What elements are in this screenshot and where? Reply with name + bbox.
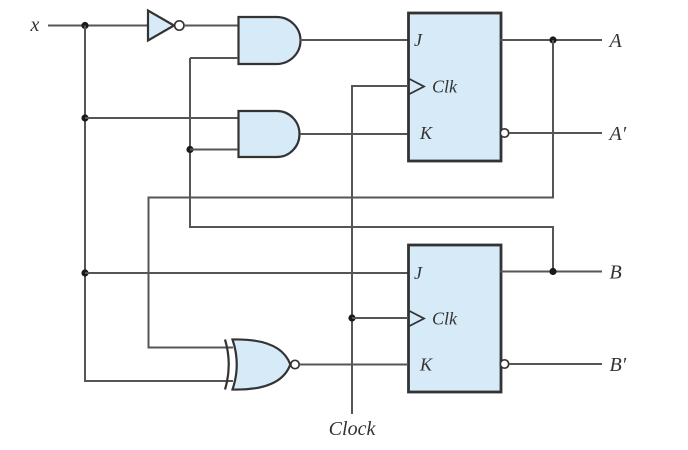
wire A' output	[509, 132, 602, 134]
wire B feedback to AND2 bottom input	[190, 149, 238, 151]
pin Clk wedge FF2	[409, 311, 425, 327]
node junction B output	[549, 268, 556, 275]
wire AND2 output to K of FF1	[300, 133, 408, 135]
svg-text:K: K	[419, 355, 433, 375]
flip-flop FF1 body	[409, 13, 502, 161]
and-gate G2	[239, 111, 300, 157]
wire XNOR output to K of FF2	[300, 364, 409, 366]
wire A feedback to XNOR	[149, 40, 554, 348]
wire B' output	[509, 363, 602, 365]
node junction x to J of FF2	[81, 269, 88, 276]
wire A output	[500, 39, 602, 41]
node junction B feedback to AND2	[186, 146, 193, 153]
svg-text:J: J	[414, 30, 423, 50]
xnor-gate G3	[225, 339, 299, 389]
svg-text:A′: A′	[608, 123, 627, 145]
inverter U1	[148, 11, 184, 41]
wire clock bus	[352, 86, 408, 414]
svg-text:A: A	[608, 30, 623, 52]
svg-text:B: B	[610, 262, 622, 284]
node junction on x rail	[81, 22, 88, 29]
wire B feedback to AND1 bottom input	[190, 57, 238, 59]
and-gate G1	[239, 17, 301, 64]
pin complement bubble FF1	[500, 129, 508, 137]
wire B feedback vertical bus	[190, 58, 553, 272]
node junction A feedback	[549, 36, 556, 43]
svg-text:K: K	[419, 123, 433, 143]
svg-text:Clk: Clk	[432, 309, 458, 329]
svg-text:B′: B′	[610, 354, 627, 376]
svg-text:Clock: Clock	[329, 418, 377, 440]
wire B output	[500, 271, 602, 273]
pin complement bubble FF2	[500, 360, 508, 368]
wire clock to Clk of FF2	[352, 317, 408, 319]
wire AND1 output to J of FF1	[300, 39, 408, 41]
wire inverter output to AND1	[184, 25, 238, 27]
pin Clk wedge FF1	[409, 79, 425, 95]
wire x to AND2 top input	[85, 117, 238, 119]
node x input label	[30, 14, 40, 36]
node junction x to AND2	[81, 114, 88, 121]
svg-text:x: x	[30, 14, 40, 36]
flip-flop FF2 body	[409, 245, 502, 392]
svg-text:Clk: Clk	[432, 77, 458, 97]
node junction clock to FF2	[348, 314, 355, 321]
wire x to J input of FF2	[85, 272, 408, 274]
wire x input rail	[48, 25, 148, 27]
wire x vertical bus	[85, 26, 233, 382]
svg-text:J: J	[414, 263, 423, 283]
